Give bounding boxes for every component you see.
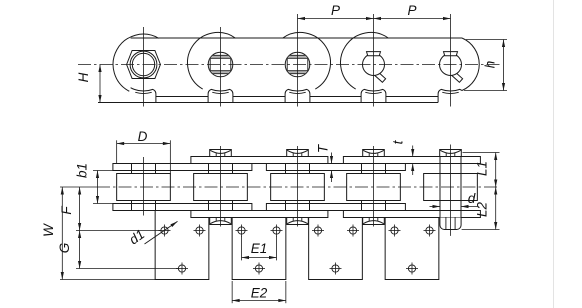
- pin 2 top head: [210, 150, 232, 157]
- upper view horizontal centerline: [78, 64, 500, 66]
- bushing edges at pins: [132, 164, 386, 211]
- dimension P (pitch): [298, 3, 451, 20]
- svg-text:P: P: [407, 3, 416, 18]
- right chain end arc: [462, 38, 479, 91]
- dimension H: [76, 65, 101, 103]
- svg-text:F: F: [59, 206, 74, 215]
- svg-text:G: G: [57, 243, 72, 254]
- dimension d: [430, 191, 479, 208]
- leader d1: [126, 221, 177, 247]
- pin 4 top head: [363, 150, 385, 157]
- svg-text:E1: E1: [251, 241, 268, 256]
- lower view horizontal centerline: [60, 186, 498, 188]
- svg-text:L1: L1: [475, 161, 490, 176]
- attachment link plate edges: [113, 164, 406, 211]
- outer link plate edges: [191, 157, 481, 218]
- dimension h: [464, 40, 507, 91]
- svg-text:D: D: [138, 129, 148, 144]
- dimension L1 L2: [462, 153, 500, 230]
- upper view pin vertical centerlines: [144, 14, 451, 107]
- dimension E1: [242, 236, 277, 260]
- plate end arcs: [113, 32, 389, 91]
- pin 4 with cotter pin: [363, 52, 386, 83]
- pin 3 with hex bushing: [285, 52, 311, 77]
- dimension W: [41, 187, 64, 280]
- svg-text:d: d: [468, 191, 476, 206]
- extension lines for F G W: [60, 231, 178, 280]
- chain top edge line: [131, 37, 462, 39]
- attachment flange bottom line: [98, 102, 438, 104]
- pin 4 bottom head: [363, 218, 385, 225]
- dimension b1: [75, 163, 113, 204]
- svg-text:E2: E2: [251, 286, 268, 301]
- svg-text:L2: L2: [475, 202, 490, 218]
- svg-text:H: H: [76, 72, 91, 82]
- svg-text:b1: b1: [75, 163, 90, 178]
- dimension T: [315, 143, 333, 182]
- bottom mesa profiles with roller arcs: [131, 88, 462, 103]
- lower view pin centerlines: [144, 145, 451, 236]
- attachment plate holes: [159, 225, 436, 275]
- pin 5 extended pin: [440, 150, 462, 230]
- svg-text:W: W: [41, 223, 56, 237]
- pin 3 top head: [287, 150, 309, 157]
- svg-text:P: P: [331, 3, 340, 18]
- pin 2 bottom head: [210, 218, 232, 225]
- attachment flange top lines: [156, 96, 438, 98]
- dimension t: [391, 139, 415, 175]
- pin 3 bottom head: [287, 218, 309, 225]
- bent attachment plates (plan view): [155, 211, 439, 280]
- pin 1 hex head with circles: [127, 51, 161, 79]
- dimension D: [117, 129, 171, 175]
- dimension F: [59, 187, 81, 231]
- rollers (plan view): [117, 174, 478, 201]
- dimension G: [57, 231, 81, 269]
- dimension E2: [232, 281, 286, 303]
- faint vertical border line: [553, 0, 555, 308]
- pin 2 with hex bushing: [208, 52, 234, 77]
- pin 5 with cotter pin: [440, 52, 463, 83]
- svg-text:h: h: [483, 61, 498, 69]
